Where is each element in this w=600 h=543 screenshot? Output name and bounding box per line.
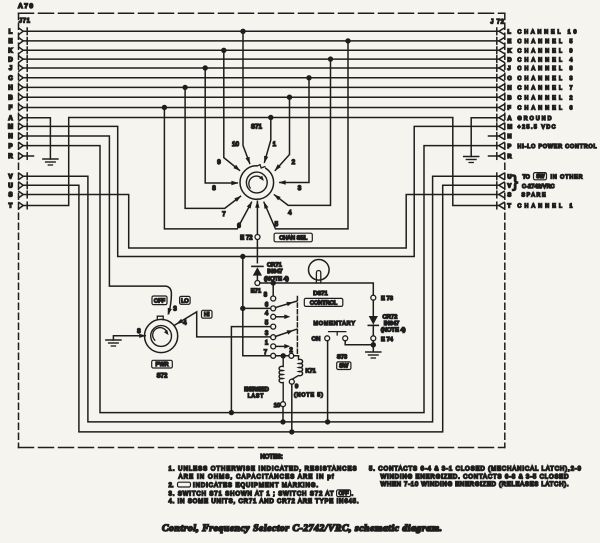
svg-text:E71: E71 xyxy=(251,289,261,295)
A70 boundary: bottom dashed edge xyxy=(19,447,505,449)
svg-text:+25.5 VDC: +25.5 VDC xyxy=(518,125,556,131)
junction 10/bus xyxy=(280,419,285,424)
svg-text:CHANNEL 3: CHANNEL 3 xyxy=(518,76,573,82)
svg-text:CHANNEL 6: CHANNEL 6 xyxy=(518,106,573,112)
svg-text:A: A xyxy=(8,116,13,122)
svg-text:5. CONTACTS 6-4 & 3-1 CLOSED (: 5. CONTACTS 6-4 & 3-1 CLOSED (MECHANICAL… xyxy=(369,467,582,473)
relay contact 1 xyxy=(271,344,276,349)
J71 pin E tick xyxy=(26,38,28,45)
J71 pin H tick xyxy=(26,84,28,91)
J71 pin L connector bracket xyxy=(19,28,23,34)
J72 pin N tick xyxy=(496,133,498,140)
J72 pin B tick xyxy=(496,94,498,101)
svg-text:5: 5 xyxy=(275,221,279,228)
svg-text:H: H xyxy=(8,86,12,92)
svg-text:(NOTE 4): (NOTE 4) xyxy=(381,327,406,333)
wire channel row L from J71 to J72 xyxy=(23,30,499,32)
svg-text:MOMENTARY: MOMENTARY xyxy=(313,321,355,327)
wire +25V spine to contacts 6 and 7 xyxy=(243,257,271,356)
svg-text:1: 1 xyxy=(273,141,277,148)
PWR equipment marking box xyxy=(152,360,173,368)
J72 pin K tick xyxy=(496,47,498,54)
svg-text:R: R xyxy=(8,154,13,160)
svg-text:CHANNEL 2: CHANNEL 2 xyxy=(518,95,573,101)
S71 inner circle xyxy=(246,172,267,193)
ground at J72-A xyxy=(464,156,479,158)
svg-text:TO: TO xyxy=(523,175,530,181)
wire spine to contact 6 xyxy=(243,307,271,309)
svg-text:6: 6 xyxy=(237,222,241,229)
J72 pin A connector bracket xyxy=(499,115,504,121)
wire terminal 10 to bus xyxy=(282,407,284,422)
terminal E74 xyxy=(371,336,376,341)
wire 7-2 row xyxy=(276,355,299,357)
svg-text:INDICATES EQUIPMENT MARKING.: INDICATES EQUIPMENT MARKING. xyxy=(193,483,318,489)
svg-text:CONTROL: CONTROL xyxy=(310,301,337,307)
svg-text:V: V xyxy=(8,175,12,181)
wire N net to S72 contact 3 (OFF) xyxy=(23,136,171,314)
junction channel tap xyxy=(203,65,208,70)
svg-text:3. SWITCH S71 SHOWN AT 1 ; SWI: 3. SWITCH S71 SHOWN AT 1 ; SWITCH S72 AT xyxy=(169,491,334,497)
junction contact5/P bus xyxy=(229,410,234,415)
svg-text:K: K xyxy=(508,49,512,55)
svg-text:(NOTE 5): (NOTE 5) xyxy=(294,393,323,399)
J71 pin D connector bracket xyxy=(19,56,23,62)
wire channel 1 net: left T pin riser, row, right T riser xyxy=(23,118,499,206)
wire S71 contact 9 tap from K row xyxy=(224,50,240,170)
svg-text:LO: LO xyxy=(181,298,189,304)
wire J71-A ground stub xyxy=(23,118,50,159)
svg-text:(NOTE 4): (NOTE 4) xyxy=(264,276,289,282)
svg-text:M: M xyxy=(8,125,13,131)
J72 pin B connector bracket xyxy=(499,94,504,100)
J71 pin U connector bracket xyxy=(19,182,23,188)
wire S71 contact 7 tap from H row xyxy=(185,87,240,208)
svg-text:S71: S71 xyxy=(251,125,263,131)
J72 pin R tick xyxy=(496,153,498,160)
relay K71 winding 2-9 xyxy=(292,356,303,380)
J72 pin V tick xyxy=(496,182,498,189)
J71 pin T connector bracket xyxy=(19,202,23,208)
J72 pin R stub wire xyxy=(489,155,499,157)
svg-text:M: M xyxy=(508,125,513,131)
S71 rotation arrow arc xyxy=(249,176,263,188)
svg-text:H: H xyxy=(508,86,512,92)
J71 pin S tick xyxy=(26,191,28,198)
junction channel tap xyxy=(345,38,350,43)
svg-text:B: B xyxy=(508,95,512,101)
svg-text:J: J xyxy=(508,66,511,72)
terminal E71 xyxy=(255,281,260,286)
J71 pin B tick xyxy=(26,94,28,101)
svg-text:DS71: DS71 xyxy=(313,291,328,297)
junction spine / contact 6 xyxy=(240,306,245,311)
wire channel row E from J71 to J72 xyxy=(23,40,499,42)
svg-text:SW: SW xyxy=(536,174,544,180)
svg-text:}: } xyxy=(512,172,518,191)
junction channel tap xyxy=(287,95,292,100)
J71 pin B connector bracket xyxy=(19,94,23,100)
svg-text:IN647: IN647 xyxy=(267,269,282,275)
J72 pin N connector bracket xyxy=(499,133,504,139)
J72 pin P connector bracket xyxy=(499,142,504,148)
svg-text:9: 9 xyxy=(295,384,298,390)
J72 pin N stub wire xyxy=(489,135,499,137)
wire S71 contact 2 tap from B row xyxy=(275,97,289,170)
svg-text:10: 10 xyxy=(274,403,280,409)
wire V-left to U-right net (to SW in other unit) xyxy=(23,176,499,422)
svg-text:WHEN 7-10 WINDING ENERGIZED (R: WHEN 7-10 WINDING ENERGIZED (RELEASES LA… xyxy=(381,482,569,488)
relay arm 4 xyxy=(276,316,285,318)
S72 index tab xyxy=(157,316,163,320)
S72 contact 4 (HI) wire to relay contact 3 xyxy=(175,312,271,337)
J71 pin D tick xyxy=(26,56,28,63)
SW equipment marking box xyxy=(337,362,351,370)
svg-text:P: P xyxy=(508,144,512,150)
S73 actuator bar xyxy=(329,332,346,335)
J72 pin C connector bracket xyxy=(499,75,504,81)
J71 pin P tick xyxy=(26,142,28,149)
junction channel tap xyxy=(240,29,245,34)
relay contact 7 xyxy=(271,353,276,358)
J71 pin A tick xyxy=(26,114,28,121)
svg-text:IN647: IN647 xyxy=(384,321,399,327)
S72 contact 8 ground wire xyxy=(113,336,145,340)
J71 pin M connector bracket xyxy=(19,123,23,129)
connector J71 / A70 left dashed boundary line xyxy=(18,13,20,447)
svg-text:L: L xyxy=(9,30,13,36)
J71 pin H connector bracket xyxy=(19,84,23,90)
junction S73 / U bus xyxy=(325,419,330,424)
svg-text:4: 4 xyxy=(288,209,292,216)
svg-text:ARE IN OHMS, CAPACITANCES AR: ARE IN OHMS, CAPACITANCES ARE IN pf xyxy=(179,474,334,480)
wire S71 contact 4 tap from D row xyxy=(275,59,331,205)
ground at S72 contact 8 xyxy=(106,339,121,341)
svg-text:3: 3 xyxy=(298,185,302,192)
J72 pin T connector bracket xyxy=(499,202,504,208)
J71 pin K connector bracket xyxy=(19,47,23,53)
wire S71 contact 1 tap from channel 1 row xyxy=(265,118,271,163)
J72 pin A tick xyxy=(496,114,498,121)
svg-text:E 74: E 74 xyxy=(381,337,394,343)
svg-text:D: D xyxy=(8,57,13,63)
terminal E72 xyxy=(255,235,260,240)
relay K71 winding 7-10 (energized last) xyxy=(279,358,283,402)
wire channel row D from J71 to J72 xyxy=(23,58,499,60)
wire channel row C from J71 to J72 xyxy=(23,77,499,79)
svg-text:S73: S73 xyxy=(337,355,347,361)
svg-text:F: F xyxy=(9,106,13,112)
wire S71 contact 10 tap from L row xyxy=(243,31,250,163)
svg-text:CR71: CR71 xyxy=(267,263,282,269)
relay contact 4 xyxy=(271,314,276,319)
LO equipment marking box xyxy=(180,296,191,304)
svg-text:J71: J71 xyxy=(19,19,31,25)
wire E71 node to E73 riser xyxy=(260,283,374,295)
svg-text:1. UNLESS OTHERWISE INDICATE: 1. UNLESS OTHERWISE INDICATED, RESISTANC… xyxy=(169,467,357,473)
svg-text:WINDING ENERGIZED. CONTACTS 6-: WINDING ENERGIZED. CONTACTS 6-8 & 3-5 CL… xyxy=(381,474,570,480)
relay arm 1 xyxy=(276,345,285,347)
junction channel tap xyxy=(182,85,187,90)
relay arm 6 xyxy=(275,301,296,307)
diode CR71 xyxy=(252,265,263,267)
J71 pin N connector bracket xyxy=(19,133,23,139)
wire channel row K from J71 to J72 xyxy=(23,49,499,51)
svg-text:CHANNEL 9: CHANNEL 9 xyxy=(518,49,573,55)
svg-text:S72: S72 xyxy=(157,374,168,380)
J71 pin R tick xyxy=(26,153,28,160)
wire S71 contact 8 tap from J row xyxy=(205,68,237,183)
svg-text:NOTES:: NOTES: xyxy=(260,454,283,460)
relay contact 3 xyxy=(271,335,276,340)
wire J72-A ground stub xyxy=(471,118,499,157)
S72 inner circle xyxy=(151,326,172,347)
J71 pin L tick xyxy=(26,28,28,35)
svg-text:N: N xyxy=(8,134,12,140)
terminal E73 xyxy=(371,295,376,300)
wire contact 5 to P bus xyxy=(231,327,270,413)
J71 pin R stub wire xyxy=(23,155,33,157)
J72 pin L connector bracket xyxy=(499,28,504,34)
wire S73 right contact to E74 xyxy=(345,341,371,345)
svg-text:P: P xyxy=(8,144,12,150)
svg-text:CR72: CR72 xyxy=(383,315,398,321)
svg-text:C: C xyxy=(8,76,13,82)
J72 pin J connector bracket xyxy=(499,65,504,71)
wire S71 contact 6 tap from F row xyxy=(164,108,251,229)
relay contact 8 xyxy=(271,296,276,301)
S71 wiper wire to E72 xyxy=(256,201,258,263)
svg-text:C-2742/VRC: C-2742/VRC xyxy=(522,184,555,190)
J72 pin F tick xyxy=(496,104,498,111)
svg-text:CHANNEL 10: CHANNEL 10 xyxy=(518,30,577,36)
J72 pin M connector bracket xyxy=(499,123,504,129)
svg-text:OFF: OFF xyxy=(154,299,166,305)
svg-text:HI-LO POWER CONTROL: HI-LO POWER CONTROL xyxy=(518,144,597,150)
svg-text:7: 7 xyxy=(222,211,226,218)
svg-text:2: 2 xyxy=(292,159,296,166)
svg-text:K: K xyxy=(8,49,13,55)
J72 pin F connector bracket xyxy=(499,104,504,110)
wire M +25.5 VDC net xyxy=(23,126,499,256)
J72 pin S connector bracket xyxy=(499,191,504,197)
J71 pin V connector bracket xyxy=(19,173,23,179)
svg-text:Control, Frequency Selector: Control, Frequency Selector C-2742/VRC, … xyxy=(162,523,442,534)
J72 pin E tick xyxy=(496,38,498,45)
wire P HI-LO power control net xyxy=(23,146,499,413)
svg-text:E 73: E 73 xyxy=(381,296,393,302)
svg-text:PWR: PWR xyxy=(155,362,168,368)
svg-text:SW: SW xyxy=(339,364,349,370)
junction 9/bus xyxy=(289,429,294,434)
junction M line / spine xyxy=(240,254,245,259)
J72 pin D connector bracket xyxy=(499,56,504,62)
J72 pin U connector bracket xyxy=(499,173,504,179)
svg-text:CHANNEL 5: CHANNEL 5 xyxy=(518,39,573,45)
relay terminal 9 xyxy=(289,379,294,384)
S71 index notch xyxy=(257,164,265,169)
J72 pin T tick xyxy=(496,202,498,209)
lamp DS71 xyxy=(309,260,330,281)
relay contact 6 xyxy=(271,306,276,311)
junction E74/S73 xyxy=(371,342,376,347)
relay arm 3 xyxy=(275,329,296,336)
J71 pin R connector bracket xyxy=(19,153,23,159)
svg-text:K71: K71 xyxy=(306,368,316,374)
J71 pin V tick xyxy=(26,173,28,180)
junction 7-2 row / left winding xyxy=(281,353,286,358)
junction channel1 tap xyxy=(268,115,273,120)
J71 pin C tick xyxy=(26,75,28,82)
junction channel tap xyxy=(328,56,333,61)
svg-text:T: T xyxy=(9,204,13,210)
svg-text:E: E xyxy=(508,39,512,45)
J71 pin M tick xyxy=(26,123,28,130)
svg-text:U: U xyxy=(508,175,512,181)
J71 pin U tick xyxy=(26,182,28,189)
svg-text:CHANNEL 1: CHANNEL 1 xyxy=(518,204,573,210)
wire S spare net xyxy=(23,195,499,249)
J71 pin J tick xyxy=(26,65,28,72)
svg-text:8: 8 xyxy=(137,328,141,335)
svg-text:3: 3 xyxy=(173,305,177,312)
J72 pin R connector bracket xyxy=(499,153,504,159)
junction E71 line / relay contact 8 xyxy=(271,280,276,285)
svg-text:V: V xyxy=(508,184,512,190)
relay mechanical linkage dashed line xyxy=(296,297,298,356)
J71 pin K tick xyxy=(26,47,28,54)
J71 pin S connector bracket xyxy=(19,191,23,197)
svg-text:C: C xyxy=(508,76,512,82)
svg-text:IN OTHER: IN OTHER xyxy=(551,175,583,181)
wire channel row F from J71 to J72 xyxy=(23,107,499,109)
J71 pin J connector bracket xyxy=(19,65,23,71)
J72 pin L tick xyxy=(496,28,498,35)
J72 pin V connector bracket xyxy=(499,182,504,188)
power switch S72 outer circle xyxy=(145,319,178,352)
J71 pin F connector bracket xyxy=(19,104,23,110)
J71 pin E connector bracket xyxy=(19,38,23,44)
wire S71 contact 5 tap from E row xyxy=(264,41,348,229)
wire terminal 9 to bus xyxy=(291,384,293,432)
S72 rotation arrow arc xyxy=(153,328,168,341)
svg-text:J 72: J 72 xyxy=(491,20,505,26)
J72 pin H tick xyxy=(496,84,498,91)
connector J72 dashed boundary line xyxy=(504,13,506,447)
J72 pin S tick xyxy=(496,191,498,198)
wire S73 left contact down to U/V bus xyxy=(327,341,329,422)
arrowhead S72 contact 4 xyxy=(176,319,183,325)
svg-text:A: A xyxy=(508,116,512,122)
J72 pin J tick xyxy=(496,65,498,72)
svg-text:9: 9 xyxy=(217,159,221,166)
A70 assembly dashed boundary: top edge xyxy=(19,12,505,14)
svg-text:CHANNEL 7: CHANNEL 7 xyxy=(518,86,573,92)
svg-text:HI: HI xyxy=(204,312,210,318)
J72 pin M tick xyxy=(496,123,498,130)
J72 pin D tick xyxy=(496,56,498,63)
junction channel tap xyxy=(221,48,226,53)
svg-text:CHANNEL 8: CHANNEL 8 xyxy=(518,66,573,72)
HI equipment marking box xyxy=(202,310,213,318)
svg-text:D: D xyxy=(508,57,512,63)
svg-text:R: R xyxy=(508,154,512,160)
CONTROL equipment marking box xyxy=(304,298,343,306)
wire E74 to ground xyxy=(372,341,374,352)
svg-text:A70: A70 xyxy=(18,3,33,10)
svg-text:U: U xyxy=(8,184,12,190)
J71 pin P connector bracket xyxy=(19,142,23,148)
svg-text:8: 8 xyxy=(212,185,216,192)
svg-text:ENERGIZED: ENERGIZED xyxy=(244,387,269,393)
svg-text:S: S xyxy=(508,193,512,199)
arrowhead S72 contact 3 xyxy=(168,308,172,316)
svg-text:4: 4 xyxy=(183,320,187,327)
J72 pin H connector bracket xyxy=(499,84,504,90)
relay terminal 2 xyxy=(289,353,294,358)
J71 pin N tick xyxy=(26,133,28,140)
junction channel tap xyxy=(306,75,311,80)
svg-text:E 72: E 72 xyxy=(240,235,253,241)
svg-text:LAST: LAST xyxy=(248,394,264,400)
svg-text:S: S xyxy=(8,193,12,199)
ground at J71-A xyxy=(43,158,58,160)
wire channel row B from J71 to J72 xyxy=(23,96,499,98)
wire U-left to V-right net (to SW in other unit) xyxy=(23,185,499,432)
wire contact 8 to E71 line xyxy=(272,283,274,296)
svg-text:B: B xyxy=(8,95,13,101)
svg-text:CHANNEL 4: CHANNEL 4 xyxy=(518,57,573,63)
CHAN SEL equipment marking box xyxy=(274,233,312,242)
rotary switch S71 outer circle xyxy=(240,166,274,200)
svg-text:4. IN SOME UNITS, CR71 AND CR7: 4. IN SOME UNITS, CR71 AND CR72 ARE TYPE… xyxy=(169,499,359,505)
wire channel row H from J71 to J72 xyxy=(23,86,499,88)
J71 pin F tick xyxy=(26,104,28,111)
J72 pin E connector bracket xyxy=(499,38,504,44)
OFF equipment marking box xyxy=(152,296,167,305)
wire S71 contact 3 tap from C row xyxy=(280,78,309,183)
svg-text:10: 10 xyxy=(232,141,239,148)
svg-text:N: N xyxy=(508,134,512,140)
J71 pin C connector bracket xyxy=(19,75,23,81)
ground at E74 xyxy=(366,351,381,353)
svg-text:E: E xyxy=(8,39,12,45)
J72 pin K connector bracket xyxy=(499,47,504,53)
J72 pin U tick xyxy=(496,173,498,180)
J71 pin A connector bracket xyxy=(19,115,23,121)
svg-text:ON: ON xyxy=(312,337,321,343)
svg-text:J: J xyxy=(9,66,12,72)
svg-text:2.: 2. xyxy=(169,483,174,489)
wire channel row J from J71 to J72 xyxy=(23,67,499,69)
J72 pin P tick xyxy=(496,142,498,149)
relay terminal 10 xyxy=(281,402,286,407)
junction channel tap xyxy=(162,105,167,110)
J72 pin C tick xyxy=(496,75,498,82)
momentary switch S73 contacts xyxy=(325,336,330,341)
diode CR72 xyxy=(372,300,374,316)
svg-text:OFF: OFF xyxy=(339,491,349,497)
J71 pin T tick xyxy=(26,202,28,209)
relay contact 5 xyxy=(271,324,276,329)
svg-text:CHAN SEL: CHAN SEL xyxy=(279,236,307,242)
